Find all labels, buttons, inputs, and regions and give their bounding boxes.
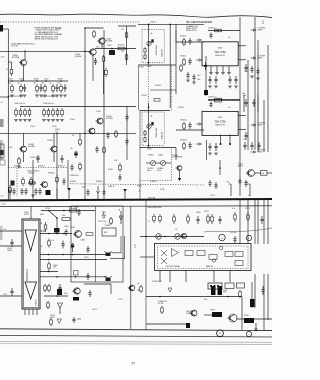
svg-text:470u: 470u bbox=[223, 292, 227, 294]
svg-text:4b TONMETER: 4b TONMETER bbox=[172, 157, 183, 159]
svg-text:OT930: OT930 bbox=[45, 208, 50, 210]
svg-text:C2643: C2643 bbox=[30, 126, 35, 128]
svg-text:LS2662: LS2662 bbox=[158, 155, 163, 157]
svg-text:10k: 10k bbox=[175, 229, 178, 231]
svg-text:R2644: R2644 bbox=[8, 79, 13, 81]
svg-text:BD675: BD675 bbox=[238, 165, 243, 167]
svg-text:0,5: 0,5 bbox=[1, 102, 3, 104]
svg-text:4k7: 4k7 bbox=[41, 83, 44, 85]
svg-text:R2642 C2643 R2643: R2642 C2643 R2643 bbox=[42, 96, 57, 98]
svg-text:ST664-3: ST664-3 bbox=[141, 95, 147, 97]
svg-text:BC558B: BC558B bbox=[106, 118, 113, 120]
svg-text:MOD SEL: MOD SEL bbox=[148, 198, 156, 200]
svg-text:R2640 C2641 R2641: R2640 C2641 R2641 bbox=[8, 96, 23, 98]
svg-text:BC548B: BC548B bbox=[28, 146, 35, 148]
svg-text:DC SW: DC SW bbox=[158, 303, 164, 305]
svg-text:BC548B: BC548B bbox=[75, 56, 82, 58]
svg-text:ST664-7: ST664-7 bbox=[178, 107, 184, 109]
svg-text:R2666: R2666 bbox=[70, 119, 75, 121]
svg-text:OT681: OT681 bbox=[244, 315, 249, 317]
svg-text:ST666: ST666 bbox=[160, 189, 165, 191]
svg-text:POWER ON: POWER ON bbox=[158, 301, 168, 303]
svg-text:BC548B: BC548B bbox=[12, 57, 20, 59]
svg-text:1N4148: 1N4148 bbox=[105, 225, 110, 227]
svg-text:10u: 10u bbox=[17, 83, 20, 85]
svg-text:C2642: C2642 bbox=[147, 66, 152, 68]
svg-text:ST660-2: ST660-2 bbox=[38, 166, 45, 168]
svg-text:ST664-6: ST664-6 bbox=[96, 181, 103, 183]
svg-text:4.7u: 4.7u bbox=[228, 107, 231, 109]
svg-text:29504-102: 29504-102 bbox=[162, 49, 164, 57]
svg-text:C2642: C2642 bbox=[147, 149, 152, 151]
svg-text:C2640 470p 1n: C2640 470p 1n bbox=[14, 103, 25, 105]
svg-text:0,5W: 0,5W bbox=[1, 57, 5, 59]
svg-text:OT672: OT672 bbox=[210, 195, 215, 197]
svg-text:ST664: ST664 bbox=[137, 186, 142, 188]
svg-text:26: 26 bbox=[262, 21, 264, 23]
svg-text:VOL/TRE: VOL/TRE bbox=[147, 168, 153, 170]
svg-text:C2645: C2645 bbox=[52, 126, 57, 128]
svg-text:1 7L: 1 7L bbox=[245, 182, 248, 184]
svg-text:100/16: 100/16 bbox=[7, 250, 12, 252]
svg-text:IC660: IC660 bbox=[218, 47, 223, 49]
svg-text:2.2k: 2.2k bbox=[121, 29, 124, 31]
svg-text:C2648 4.7u: C2648 4.7u bbox=[208, 28, 216, 30]
svg-text:C2694 4 MIKROSW: C2694 4 MIKROSW bbox=[147, 207, 162, 209]
svg-text:4.7u: 4.7u bbox=[243, 95, 246, 97]
svg-text:ST664-12: ST664-12 bbox=[180, 120, 187, 122]
svg-text:ST664-5: ST664-5 bbox=[155, 85, 161, 87]
svg-text:ST664-3: ST664-3 bbox=[180, 36, 186, 38]
svg-text:47k: 47k bbox=[33, 83, 36, 85]
svg-text:1M2: 1M2 bbox=[137, 290, 140, 292]
svg-text:RECORD SIGNAL: RECORD SIGNAL bbox=[166, 265, 180, 268]
svg-text:04: 04 bbox=[262, 23, 264, 25]
svg-text:BC548B: BC548B bbox=[106, 40, 113, 42]
svg-text:C2642 470p 1n: C2642 470p 1n bbox=[43, 103, 54, 105]
svg-text:C2658: C2658 bbox=[64, 226, 69, 228]
svg-text:ST664-14: ST664-14 bbox=[180, 140, 187, 142]
svg-text:OT691: OT691 bbox=[70, 227, 75, 229]
svg-text:NF-VERSTAERKER: NF-VERSTAERKER bbox=[186, 20, 212, 24]
svg-text:ST664-5: ST664-5 bbox=[180, 56, 186, 58]
svg-text:1k: 1k bbox=[49, 83, 51, 85]
svg-text:4a SERV: 4a SERV bbox=[172, 155, 178, 157]
svg-text:C26 100n: C26 100n bbox=[230, 232, 237, 234]
svg-text:IC2650: IC2650 bbox=[36, 299, 38, 306]
svg-text:R2664 1k: R2664 1k bbox=[118, 45, 125, 47]
svg-text:OT651: OT651 bbox=[244, 71, 249, 73]
svg-text:100n: 100n bbox=[243, 139, 247, 141]
svg-text:ST664-2: ST664-2 bbox=[150, 22, 156, 24]
svg-text:ST660-7: ST660-7 bbox=[28, 173, 35, 175]
svg-text:29304-157 B: 29304-157 B bbox=[186, 30, 197, 32]
svg-text:R2646: R2646 bbox=[34, 79, 39, 81]
svg-text:10k: 10k bbox=[150, 116, 153, 118]
svg-text:4.7u: 4.7u bbox=[55, 131, 58, 133]
svg-text:1k: 1k bbox=[134, 247, 136, 249]
svg-text:C2691: C2691 bbox=[74, 207, 79, 209]
svg-text:C2644: C2644 bbox=[55, 129, 60, 131]
svg-text:0,5: 0,5 bbox=[248, 195, 250, 197]
svg-text:TDA 7350: TDA 7350 bbox=[214, 50, 226, 54]
svg-text:SEITE 256 V3 29304-157: SEITE 256 V3 29304-157 bbox=[35, 39, 59, 41]
svg-text:LINKS: LINKS bbox=[258, 124, 264, 126]
svg-text:C2640: C2640 bbox=[57, 28, 62, 30]
svg-text:C2699: C2699 bbox=[196, 212, 201, 214]
svg-text:C2684: C2684 bbox=[81, 240, 86, 242]
svg-text:4k7: 4k7 bbox=[72, 135, 75, 137]
svg-text:10k: 10k bbox=[8, 83, 11, 85]
svg-text:2.2k: 2.2k bbox=[121, 51, 124, 53]
svg-text:LS2660: LS2660 bbox=[148, 155, 153, 157]
svg-text:10k: 10k bbox=[150, 33, 153, 35]
svg-text:OT679: OT679 bbox=[210, 310, 215, 312]
svg-text:STK4191 II: STK4191 II bbox=[26, 269, 29, 281]
svg-text:C2648 4.7u: C2648 4.7u bbox=[208, 97, 216, 99]
svg-text:4.7u: 4.7u bbox=[232, 208, 235, 210]
svg-text:470u: 470u bbox=[204, 299, 208, 301]
svg-text:1k: 1k bbox=[148, 221, 150, 223]
svg-text:C2650: C2650 bbox=[8, 147, 13, 149]
svg-text:NOM 2x4 7W: NOM 2x4 7W bbox=[215, 125, 225, 127]
svg-text:1 4L: 1 4L bbox=[3, 229, 6, 231]
svg-text:C2658: C2658 bbox=[53, 265, 58, 267]
svg-text:C2645: C2645 bbox=[19, 79, 24, 81]
svg-text:57: 57 bbox=[132, 362, 136, 366]
svg-text:OT672: OT672 bbox=[204, 211, 209, 213]
svg-text:10k: 10k bbox=[137, 283, 140, 285]
svg-text:C2648: C2648 bbox=[7, 248, 12, 250]
svg-text:22: 22 bbox=[134, 245, 136, 247]
svg-text:TDA 7350: TDA 7350 bbox=[214, 119, 226, 123]
svg-text:C2662: C2662 bbox=[107, 45, 112, 47]
svg-text:0,5: 0,5 bbox=[41, 246, 43, 248]
svg-text:C2671: C2671 bbox=[118, 299, 123, 301]
svg-text:ST664-9: ST664-9 bbox=[150, 181, 157, 183]
svg-text:100n: 100n bbox=[242, 93, 246, 95]
svg-text:ST664-10: ST664-10 bbox=[108, 186, 115, 188]
svg-text:ST664: ST664 bbox=[139, 67, 144, 69]
svg-text:ST660-3 ST660-4: ST660-3 ST660-4 bbox=[27, 171, 39, 173]
svg-text:100k: 100k bbox=[62, 215, 66, 217]
svg-text:TONBLENDE: TONBLENDE bbox=[156, 127, 158, 138]
svg-text:C2664: C2664 bbox=[96, 111, 101, 113]
svg-text:1k: 1k bbox=[56, 90, 58, 92]
svg-text:1 Tys: 1 Tys bbox=[1, 204, 6, 206]
svg-text:OT655: OT655 bbox=[238, 164, 243, 166]
svg-text:R2648: R2648 bbox=[58, 79, 63, 81]
svg-text:R2673: R2673 bbox=[92, 309, 97, 311]
svg-text:10k: 10k bbox=[52, 240, 55, 242]
svg-text:470u: 470u bbox=[64, 293, 68, 295]
svg-text:1k: 1k bbox=[6, 69, 8, 71]
svg-text:ST664-2: ST664-2 bbox=[70, 181, 77, 183]
svg-text:OT658: OT658 bbox=[50, 315, 55, 317]
svg-text:47k: 47k bbox=[40, 90, 43, 92]
svg-text:4 MIKROFON: 4 MIKROFON bbox=[152, 281, 162, 283]
svg-text:R2691: R2691 bbox=[84, 257, 89, 259]
svg-text:10u: 10u bbox=[24, 90, 27, 92]
svg-text:C2650: C2650 bbox=[24, 212, 29, 214]
svg-text:C2647: C2647 bbox=[44, 79, 49, 81]
svg-text:IC660: IC660 bbox=[218, 117, 223, 119]
svg-text:LINKS: LINKS bbox=[258, 57, 264, 59]
svg-text:100u: 100u bbox=[197, 79, 201, 81]
svg-text:470/25: 470/25 bbox=[24, 214, 29, 216]
svg-text:100u: 100u bbox=[197, 75, 201, 77]
svg-text:TONBLENDE: TONBLENDE bbox=[156, 44, 158, 55]
svg-text:LINKS: LINKS bbox=[258, 29, 264, 31]
svg-text:10k lin: 10k lin bbox=[157, 170, 161, 172]
svg-text:10k lin: 10k lin bbox=[147, 170, 151, 172]
svg-text:10u: 10u bbox=[57, 83, 60, 85]
svg-text:29504-102: 29504-102 bbox=[162, 132, 164, 140]
svg-text:C2692 220p: C2692 220p bbox=[98, 221, 107, 223]
svg-text:100n: 100n bbox=[74, 209, 78, 211]
svg-text:Y2 V 34: Y2 V 34 bbox=[11, 46, 18, 48]
svg-text:100n: 100n bbox=[82, 187, 85, 189]
svg-text:ST660-8: ST660-8 bbox=[48, 173, 55, 175]
svg-text:OT649: OT649 bbox=[47, 140, 53, 142]
svg-text:C2647 C2649: C2647 C2649 bbox=[30, 157, 40, 159]
svg-text:5W: 5W bbox=[262, 173, 265, 175]
svg-text:NOM 2x4 7W: NOM 2x4 7W bbox=[215, 55, 225, 57]
svg-text:10u: 10u bbox=[70, 148, 73, 150]
svg-text:4.7u: 4.7u bbox=[228, 37, 231, 39]
svg-text:C2668 100n: C2668 100n bbox=[70, 175, 79, 177]
svg-text:LINKS: LINKS bbox=[258, 151, 264, 153]
svg-text:100n: 100n bbox=[53, 267, 57, 269]
svg-text:C2682: C2682 bbox=[223, 290, 228, 292]
svg-text:ST662-3: ST662-3 bbox=[58, 166, 65, 168]
svg-text:R2668: R2668 bbox=[108, 169, 113, 171]
svg-text:OT674: OT674 bbox=[245, 208, 250, 210]
svg-text:C2656: C2656 bbox=[68, 207, 73, 209]
